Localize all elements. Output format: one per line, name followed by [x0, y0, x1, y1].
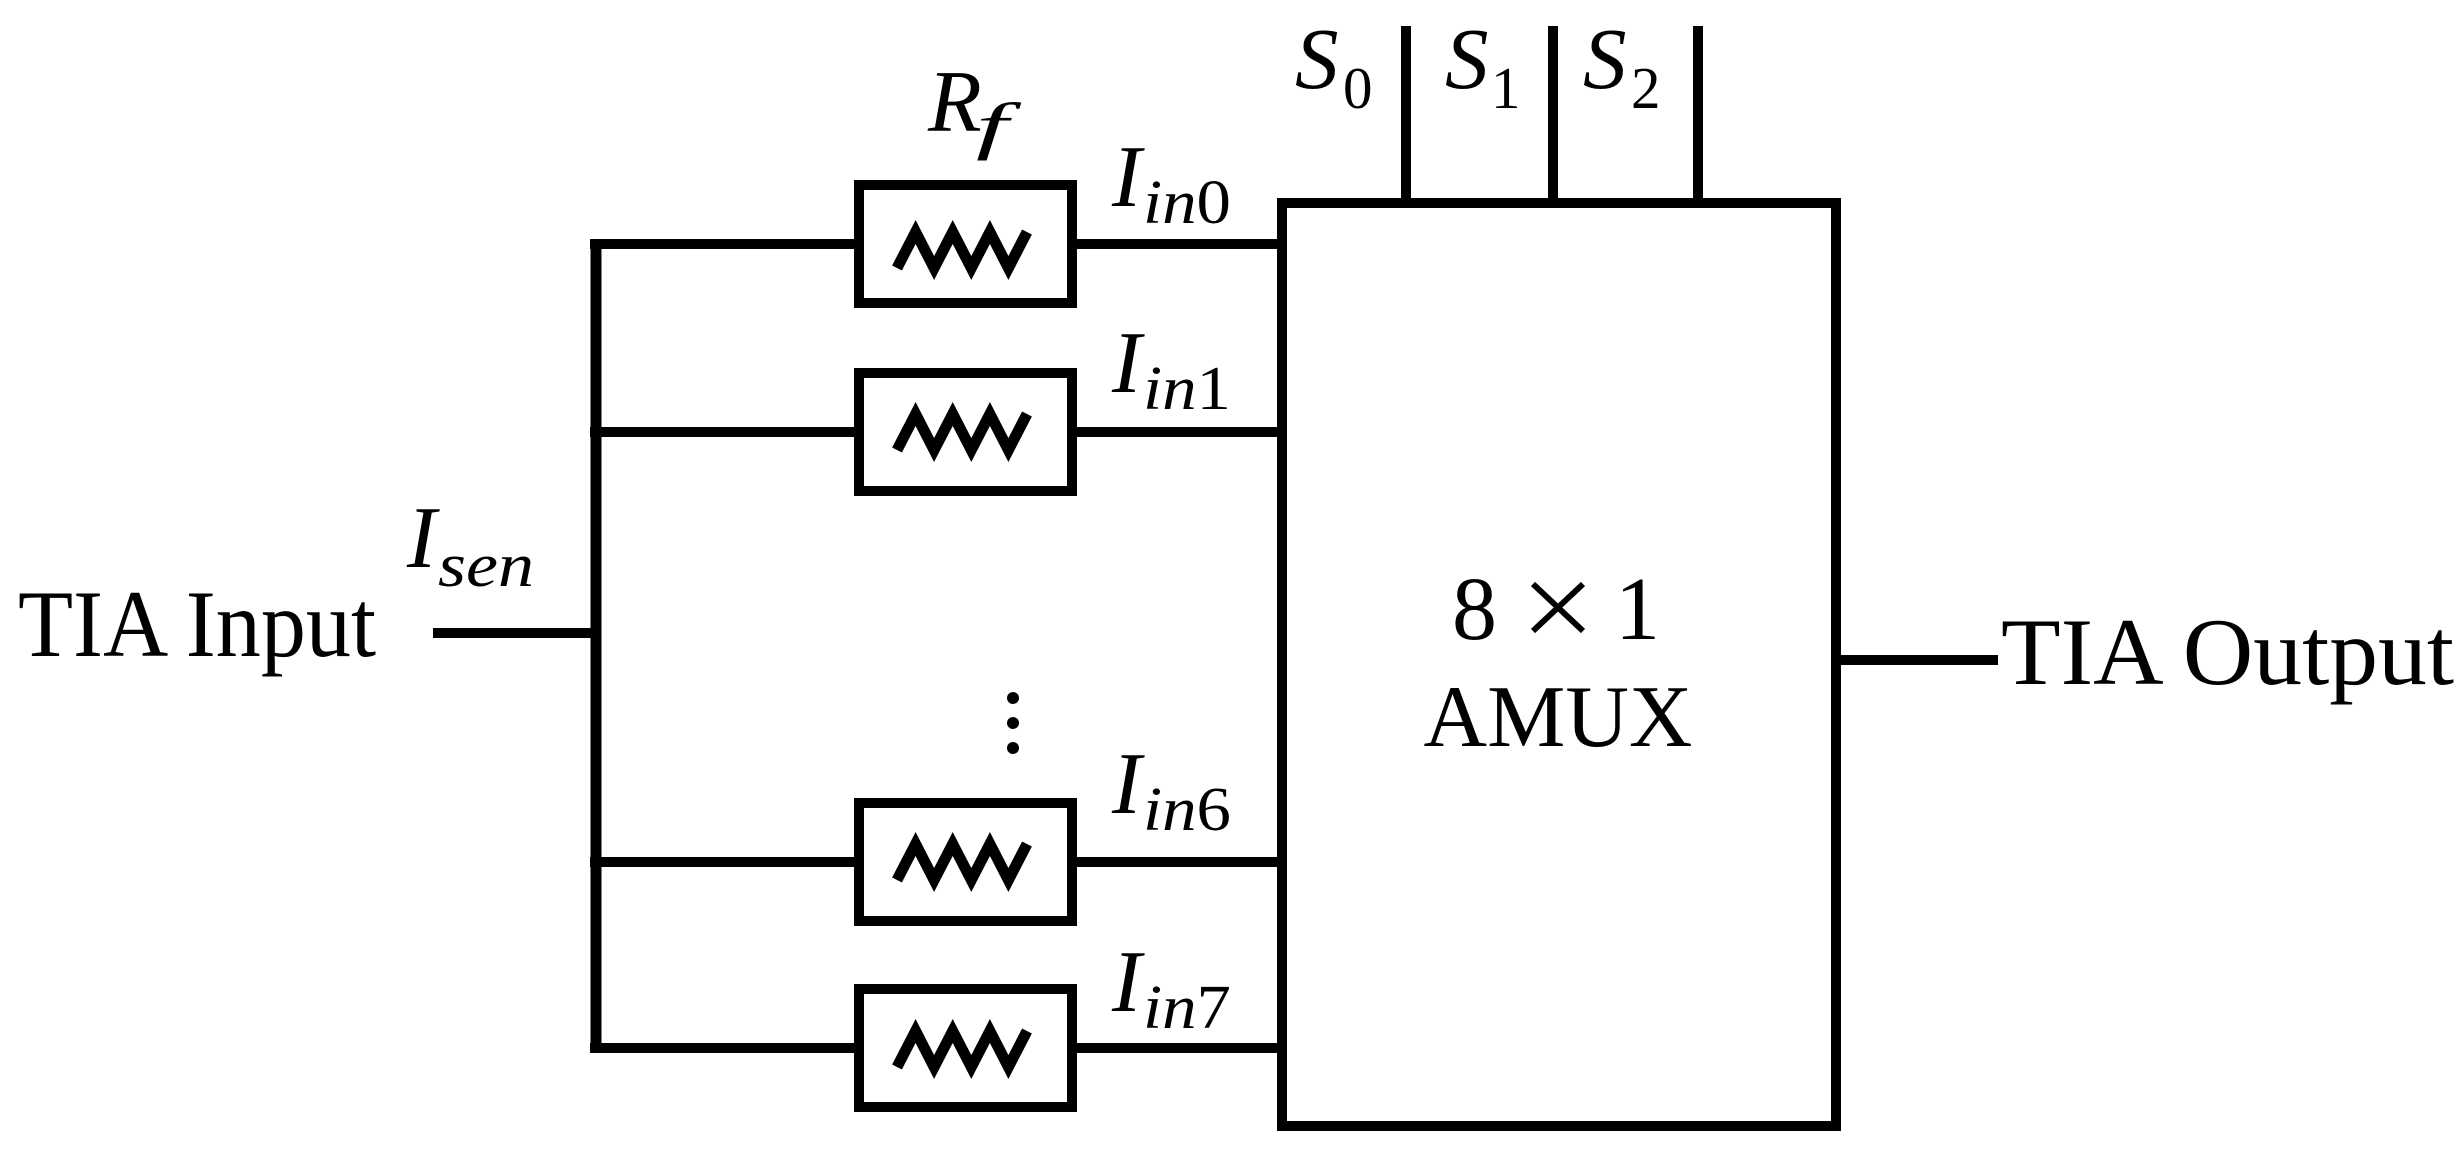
wire: select line S2 — [1693, 26, 1703, 203]
wire: bus to resistor R1 — [590, 427, 860, 437]
svg-text:in1: in1 — [1143, 355, 1231, 423]
wire: select line S0 — [1401, 26, 1411, 203]
label: net Iin0 — [1111, 129, 1231, 237]
wire: bus to resistor R7 — [590, 1043, 860, 1053]
svg-text:2: 2 — [1631, 55, 1661, 121]
svg-text:S: S — [1295, 10, 1339, 107]
wire: TIA input lead — [433, 628, 600, 638]
svg-text:I: I — [1111, 736, 1145, 833]
wire: resistor R1 to AMUX input 1 — [1072, 427, 1287, 437]
svg-text:TIA Output: TIA Output — [2001, 599, 2454, 705]
svg-text:1: 1 — [1615, 560, 1660, 659]
label: net Isen — [406, 490, 534, 600]
resistor Rf channel 7 — [859, 989, 1072, 1107]
label: S0 — [1295, 10, 1373, 121]
svg-text:0: 0 — [1343, 55, 1373, 121]
op block: 8x1 AMUX U1 — [1282, 203, 1836, 1126]
resistor Rf channel 0 — [859, 185, 1072, 303]
svg-text:TIA Input: TIA Input — [18, 571, 376, 677]
svg-text:S: S — [1445, 10, 1489, 107]
wire: bus to resistor R0 — [590, 239, 860, 249]
svg-text:S: S — [1583, 10, 1627, 107]
svg-text:in6: in6 — [1143, 776, 1231, 844]
label: S1 — [1445, 10, 1521, 121]
wire: resistor R7 to AMUX input 7 — [1072, 1043, 1287, 1053]
label: S2 — [1583, 10, 1661, 121]
resistor Rf channel 1 — [859, 373, 1072, 491]
svg-text:AMUX: AMUX — [1424, 669, 1693, 766]
svg-text:I: I — [406, 490, 440, 587]
label: net Iin1 — [1111, 315, 1231, 423]
wire: bus to resistor R6 — [590, 857, 860, 867]
label: 8 x 1 — [1452, 560, 1660, 659]
wire: TIA output lead — [1836, 655, 1998, 665]
svg-text:8: 8 — [1452, 560, 1497, 659]
svg-text:1: 1 — [1491, 55, 1521, 121]
label: net Iin6 — [1111, 736, 1231, 844]
ellipsis: channels 2..5 continuation dots — [1007, 692, 1019, 754]
svg-text:in0: in0 — [1143, 169, 1231, 237]
resistor Rf channel 6 — [859, 803, 1072, 921]
svg-text:I: I — [1111, 129, 1145, 226]
wire: input bus vertical — [591, 244, 602, 1048]
svg-text:sen: sen — [438, 532, 534, 600]
wire: resistor R6 to AMUX input 6 — [1072, 857, 1287, 867]
wire: resistor R0 to AMUX input 0 — [1072, 239, 1287, 249]
wire: select line S1 — [1548, 26, 1558, 203]
svg-text:I: I — [1111, 934, 1145, 1031]
svg-text:I: I — [1111, 315, 1145, 412]
label: Rf — [927, 54, 1023, 161]
svg-text:in7: in7 — [1143, 974, 1231, 1042]
svg-text:R: R — [927, 54, 982, 151]
label: net Iin7 — [1111, 934, 1231, 1042]
